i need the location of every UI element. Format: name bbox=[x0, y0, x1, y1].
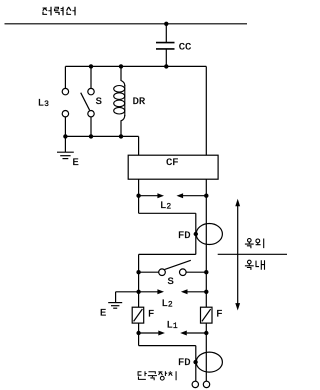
wire CF left bottom bbox=[138, 179, 140, 213]
switch S1 bottom contact bbox=[88, 111, 94, 117]
fuse F2 diagonal bbox=[202, 309, 211, 321]
junction dot S2 right bbox=[204, 270, 208, 274]
ground E1 bbox=[57, 152, 74, 158]
junction dot bus CC top bbox=[164, 22, 168, 26]
svg-text:S: S bbox=[168, 276, 174, 288]
wire F1 bottom bbox=[138, 323, 140, 346]
switch S2 lever bbox=[164, 260, 190, 269]
wire CC node to CF right corner bbox=[205, 66, 207, 155]
hangul label power line bbox=[43, 7, 75, 16]
junction dot bus CC bottom bbox=[164, 64, 168, 68]
junction dot L1 right bbox=[204, 331, 208, 335]
wire step right upper bbox=[139, 213, 196, 254]
svg-text:CC: CC bbox=[179, 41, 192, 53]
span arrow head down bbox=[235, 303, 240, 310]
hangul label outdoor bbox=[245, 239, 264, 249]
wire ground1 lead bbox=[64, 136, 66, 152]
switch S2 left contact bbox=[159, 269, 166, 276]
junction dot FD2 bbox=[193, 360, 197, 364]
terminal T2 bbox=[203, 381, 209, 387]
wire S1 drop bbox=[90, 66, 92, 88]
span arrow head up bbox=[235, 199, 240, 206]
wire horizontal bus node A bbox=[65, 65, 206, 67]
inductor DR bbox=[114, 85, 125, 116]
svg-text:FD: FD bbox=[178, 357, 191, 369]
switch S2 row bbox=[139, 271, 207, 273]
junction dot S2 left bbox=[136, 270, 140, 274]
arrow L2b right bbox=[181, 289, 206, 294]
wire DR bottom lead bbox=[121, 115, 125, 136]
junction dot FD1 bbox=[194, 232, 198, 236]
protector FD2 ellipse bbox=[196, 352, 222, 372]
arrow L1 right bbox=[180, 331, 206, 336]
wire CC bottom lead bbox=[165, 50, 167, 67]
svg-text:L2: L2 bbox=[162, 298, 173, 310]
svg-text:L1: L1 bbox=[167, 320, 178, 332]
svg-text:L3: L3 bbox=[38, 98, 49, 110]
wire CC top lead bbox=[165, 24, 167, 42]
junction dot bus S1 bbox=[89, 64, 93, 68]
arrow L2b left bbox=[139, 289, 164, 294]
filter CF box bbox=[128, 155, 218, 179]
boundary line outdoor indoor bbox=[218, 253, 287, 255]
power line bus bbox=[5, 23, 248, 25]
protector FD1 ellipse bbox=[196, 224, 222, 245]
junction dot L1 left bbox=[136, 331, 140, 335]
wire bottom bus of gap section bbox=[65, 135, 138, 137]
wire L3 to bottom bus bbox=[64, 117, 66, 136]
junction dot L2b left bbox=[136, 290, 140, 294]
svg-text:DR: DR bbox=[133, 96, 146, 108]
junction dot bottom bus L3 bbox=[63, 134, 67, 138]
arrester L3 top contact bbox=[62, 88, 68, 94]
svg-text:F: F bbox=[148, 309, 154, 321]
wire F2 bottom bbox=[205, 323, 207, 381]
svg-text:CF: CF bbox=[166, 157, 179, 169]
wire ground2 lead bbox=[116, 292, 139, 303]
junction dot L2a left bbox=[136, 194, 140, 198]
svg-text:FD: FD bbox=[178, 230, 191, 242]
terminal T1 bbox=[192, 381, 198, 387]
svg-text:F: F bbox=[216, 309, 222, 321]
wire step back left bbox=[139, 254, 196, 307]
span arrow shaft bbox=[237, 205, 239, 305]
capacitor CC bbox=[156, 43, 175, 49]
fuse F1 diagonal bbox=[134, 309, 143, 321]
svg-text:L2: L2 bbox=[160, 200, 171, 212]
arrester L3 bottom contact bbox=[62, 111, 68, 117]
junction dot bottom bus DR bbox=[119, 134, 123, 138]
switch S1 top contact bbox=[88, 88, 94, 94]
switch S1 lever bbox=[81, 93, 90, 111]
junction dot bottom bus S1 bbox=[89, 134, 93, 138]
wire DR top lead bbox=[121, 66, 125, 86]
junction dot L2a right bbox=[204, 194, 208, 198]
wire S1 to bottom bus bbox=[90, 117, 92, 136]
wire CF right bottom bbox=[205, 179, 207, 307]
junction dot L2b right bbox=[204, 290, 208, 294]
junction dot bus DR bbox=[119, 64, 123, 68]
wire L3 drop bbox=[64, 66, 66, 88]
hangul label terminal equipment bbox=[138, 371, 176, 380]
fuse F2 box bbox=[201, 307, 213, 323]
arrow L2a right bbox=[177, 193, 207, 198]
svg-text:E: E bbox=[100, 308, 106, 320]
hangul label indoor bbox=[245, 260, 265, 270]
svg-text:E: E bbox=[73, 157, 79, 169]
wire step right lower bbox=[139, 346, 196, 382]
switch S2 right contact bbox=[180, 269, 187, 276]
arrow L2a left bbox=[139, 193, 164, 198]
ground E2 bbox=[108, 303, 122, 309]
arrow L1 left bbox=[139, 331, 165, 336]
wire down to CF left bbox=[138, 136, 140, 155]
svg-text:S: S bbox=[96, 96, 102, 108]
fuse F1 box bbox=[132, 307, 144, 323]
